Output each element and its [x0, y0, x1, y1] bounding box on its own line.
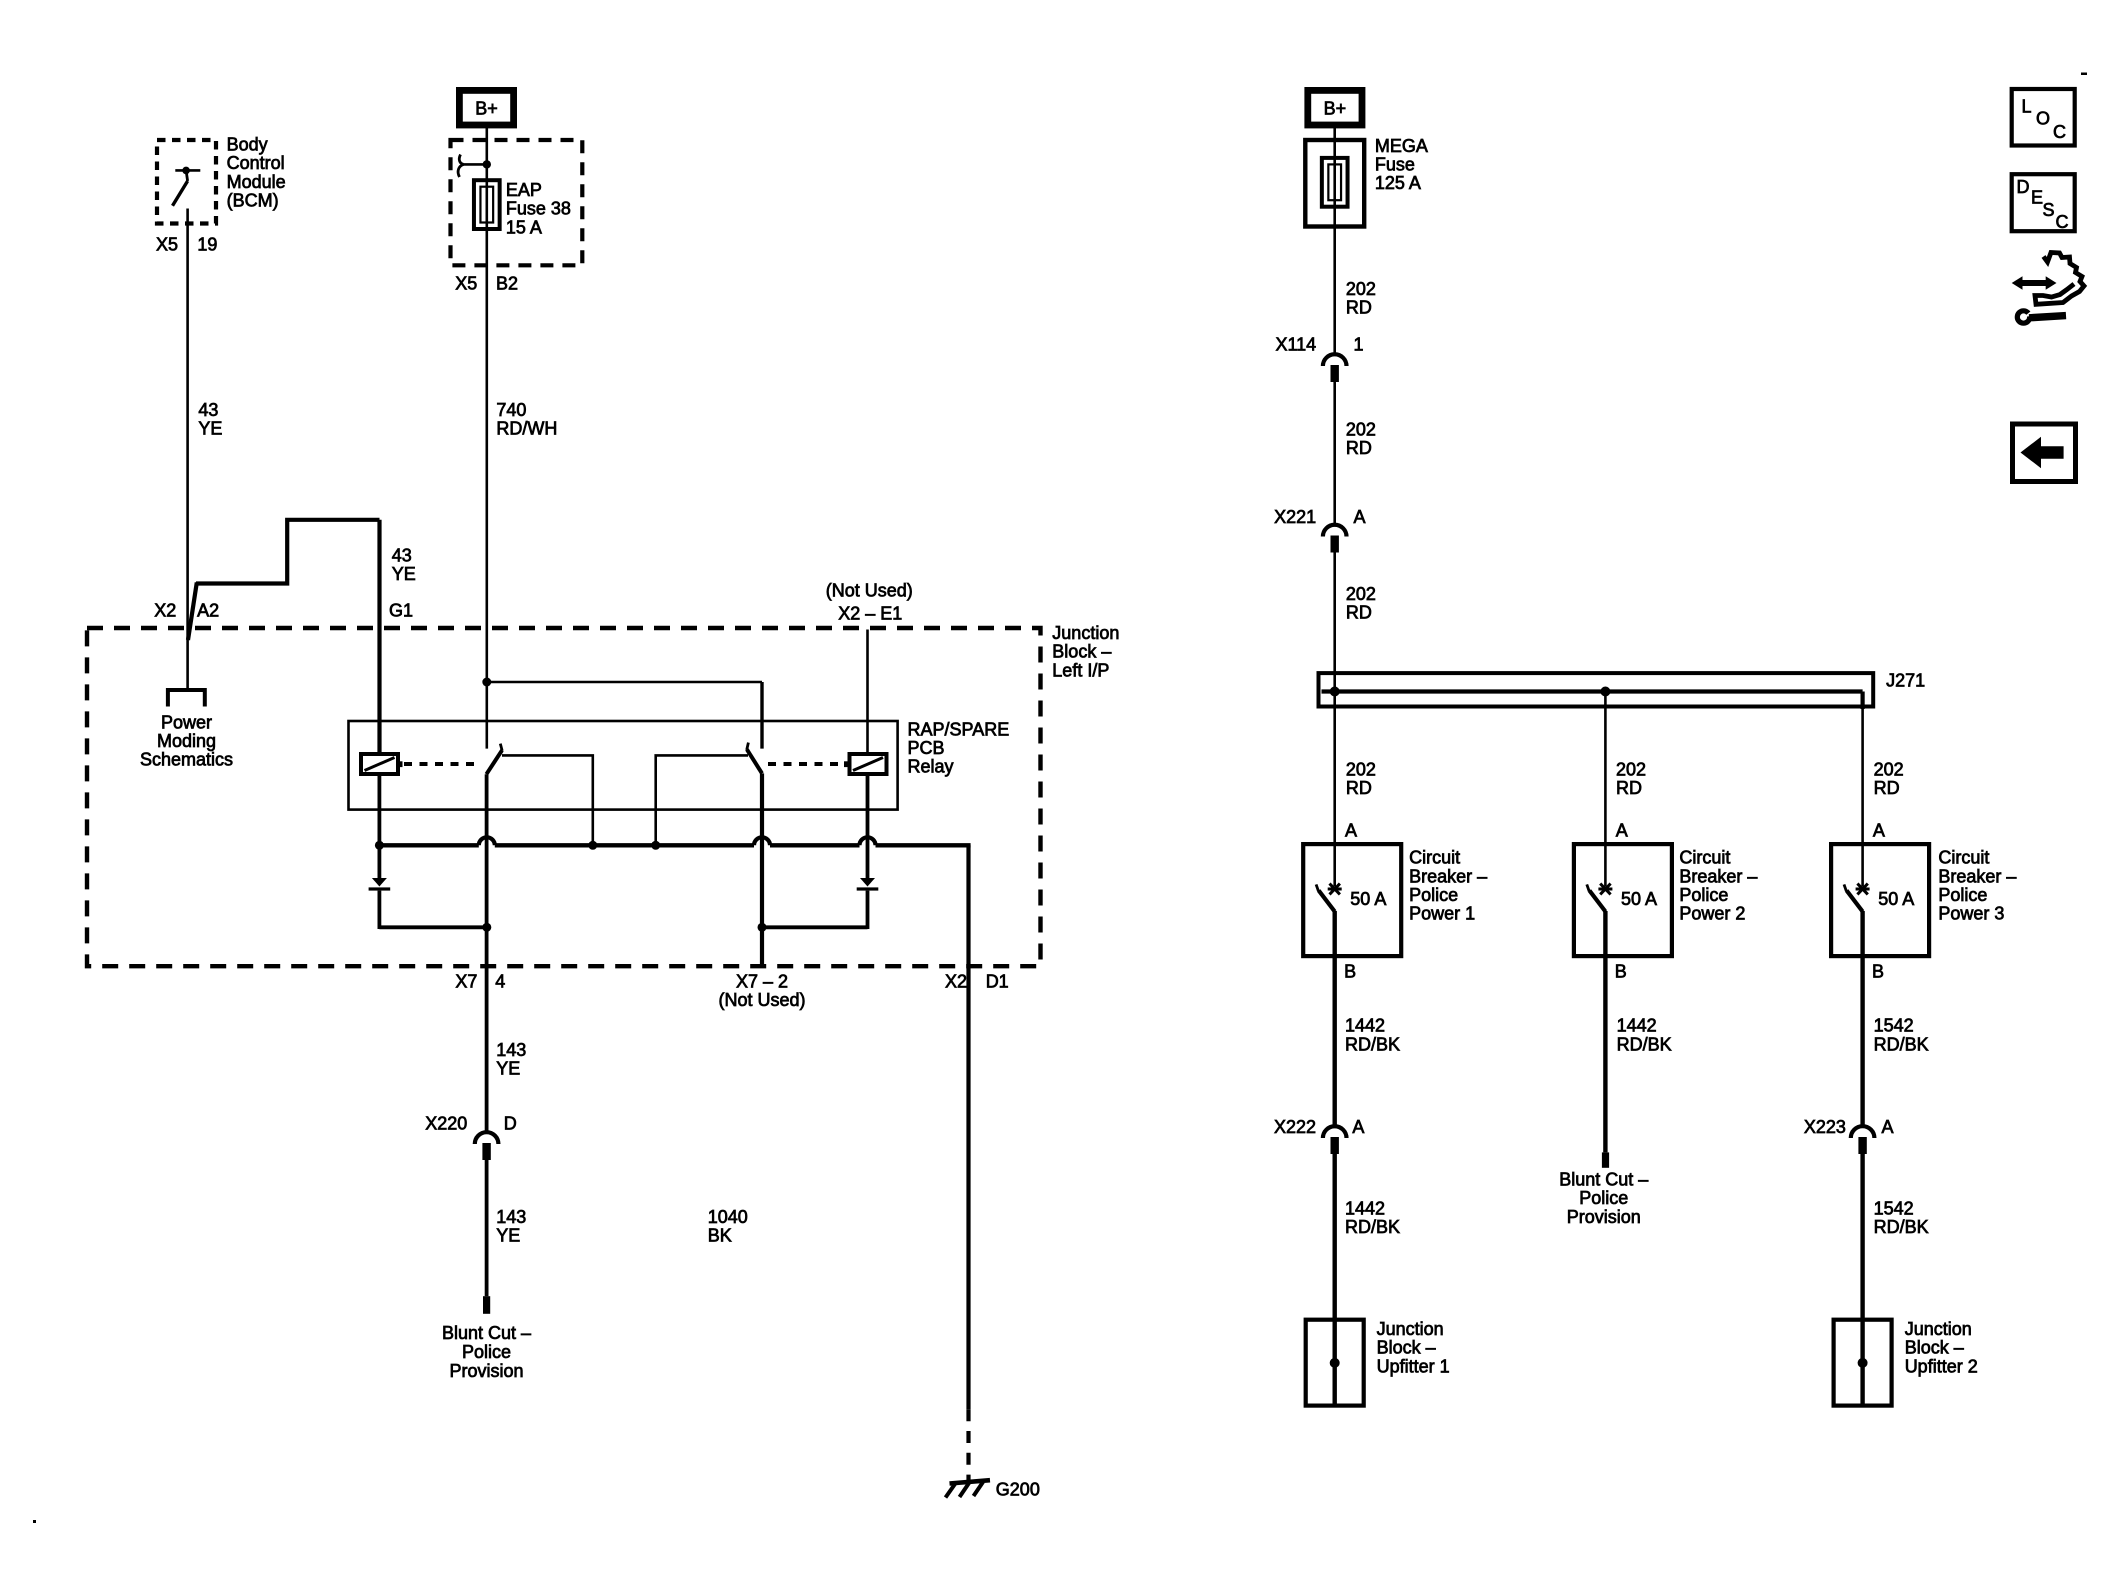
svg-text:Provision: Provision [449, 1361, 523, 1381]
svg-text:RD/BK: RD/BK [1874, 1217, 1929, 1237]
svg-text:RD/BK: RD/BK [1617, 1034, 1672, 1054]
svg-text:D: D [2017, 177, 2030, 197]
svg-text:Police: Police [1938, 885, 1987, 905]
svg-text:A2: A2 [197, 600, 219, 620]
svg-text:X5: X5 [455, 273, 477, 293]
svg-text:202: 202 [1616, 759, 1646, 779]
svg-text:4: 4 [495, 971, 505, 991]
svg-text:Power 1: Power 1 [1409, 904, 1475, 924]
svg-text:MEGA: MEGA [1375, 136, 1428, 156]
svg-text:125 A: 125 A [1375, 173, 1421, 193]
svg-text:X222: X222 [1274, 1117, 1316, 1137]
svg-text:Breaker –: Breaker – [1679, 866, 1757, 886]
svg-text:50 A: 50 A [1878, 889, 1914, 909]
svg-text:X7 – 2: X7 – 2 [736, 971, 788, 991]
svg-text:43: 43 [392, 546, 412, 566]
svg-text:YE: YE [392, 564, 416, 584]
svg-text:RD: RD [1616, 778, 1642, 798]
svg-text:X2: X2 [154, 600, 176, 620]
svg-text:S: S [2043, 200, 2055, 220]
svg-text:(Not Used): (Not Used) [826, 580, 913, 600]
svg-text:1442: 1442 [1345, 1198, 1385, 1218]
svg-text:Circuit: Circuit [1938, 848, 1989, 868]
svg-text:1542: 1542 [1874, 1198, 1914, 1218]
svg-text:PCB: PCB [908, 738, 945, 758]
svg-text:C: C [2056, 212, 2069, 232]
svg-text:Upfitter 1: Upfitter 1 [1377, 1356, 1450, 1376]
svg-text:202: 202 [1346, 420, 1376, 440]
svg-text:1542: 1542 [1874, 1016, 1914, 1036]
svg-text:X2 – E1: X2 – E1 [838, 604, 902, 624]
svg-text:RD: RD [1874, 778, 1900, 798]
svg-text:Police: Police [1679, 885, 1728, 905]
svg-text:L: L [2022, 97, 2032, 117]
svg-text:B+: B+ [1324, 98, 1347, 118]
svg-text:B: B [1872, 962, 1884, 982]
svg-text:Breaker –: Breaker – [1409, 866, 1487, 886]
svg-text:Circuit: Circuit [1679, 848, 1730, 868]
svg-text:Police: Police [1579, 1188, 1628, 1208]
svg-text:50 A: 50 A [1350, 889, 1386, 909]
svg-text:Module: Module [227, 172, 286, 192]
svg-text:Control: Control [227, 153, 285, 173]
svg-text:1: 1 [1354, 335, 1364, 355]
svg-text:Blunt Cut –: Blunt Cut – [442, 1323, 531, 1343]
svg-text:202: 202 [1346, 279, 1376, 299]
svg-text:YE: YE [496, 1226, 520, 1246]
svg-text:Left I/P: Left I/P [1052, 660, 1109, 680]
svg-text:Power 3: Power 3 [1938, 904, 2004, 924]
svg-text:Block –: Block – [1052, 642, 1111, 662]
svg-text:Fuse: Fuse [1375, 155, 1415, 175]
svg-text:G200: G200 [996, 1480, 1040, 1500]
svg-text:RD: RD [1346, 778, 1372, 798]
svg-text:X220: X220 [425, 1114, 467, 1134]
svg-text:1442: 1442 [1345, 1016, 1385, 1036]
svg-text:D1: D1 [986, 971, 1009, 991]
svg-text:Upfitter 2: Upfitter 2 [1905, 1356, 1978, 1376]
svg-text:Circuit: Circuit [1409, 848, 1460, 868]
svg-text:RD: RD [1346, 603, 1372, 623]
svg-text:A: A [1354, 507, 1366, 527]
svg-text:D: D [504, 1114, 517, 1134]
svg-text:RD/BK: RD/BK [1874, 1034, 1929, 1054]
svg-text:202: 202 [1874, 759, 1904, 779]
svg-text:43: 43 [198, 400, 218, 420]
svg-text:G1: G1 [389, 600, 413, 620]
svg-text:O: O [2036, 109, 2050, 129]
svg-text:1040: 1040 [708, 1207, 748, 1227]
svg-text:Relay: Relay [908, 757, 954, 777]
svg-text:YE: YE [198, 419, 222, 439]
svg-text:Junction: Junction [1905, 1319, 1972, 1339]
svg-text:Body: Body [227, 134, 268, 154]
svg-text:Police: Police [462, 1342, 511, 1362]
svg-text:YE: YE [496, 1059, 520, 1079]
svg-text:B2: B2 [496, 273, 518, 293]
svg-text:143: 143 [496, 1207, 526, 1227]
svg-text:E: E [2031, 188, 2043, 208]
svg-text:202: 202 [1346, 759, 1376, 779]
svg-text:Provision: Provision [1567, 1207, 1641, 1227]
svg-text:Moding: Moding [157, 731, 216, 751]
svg-text:RD: RD [1346, 298, 1372, 318]
svg-text:X223: X223 [1804, 1117, 1846, 1137]
svg-text:RD/BK: RD/BK [1345, 1217, 1400, 1237]
svg-text:15 A: 15 A [506, 217, 542, 237]
svg-text:143: 143 [496, 1040, 526, 1060]
svg-text:A: A [1345, 820, 1357, 840]
svg-text:Schematics: Schematics [140, 750, 233, 770]
svg-text:Power 2: Power 2 [1679, 904, 1745, 924]
svg-text:A: A [1616, 820, 1628, 840]
svg-text:X5: X5 [156, 235, 178, 255]
svg-text:Junction: Junction [1377, 1319, 1444, 1339]
svg-text:19: 19 [197, 235, 217, 255]
svg-text:X114: X114 [1275, 335, 1316, 355]
svg-text:Power: Power [161, 712, 212, 732]
svg-text:RD/WH: RD/WH [496, 419, 557, 439]
svg-text:Block –: Block – [1905, 1338, 1964, 1358]
svg-text:740: 740 [496, 400, 526, 420]
svg-text:B: B [1344, 962, 1356, 982]
svg-text:50 A: 50 A [1621, 889, 1657, 909]
svg-text:202: 202 [1346, 584, 1376, 604]
svg-text:RD: RD [1346, 438, 1372, 458]
svg-text:X221: X221 [1274, 507, 1316, 527]
svg-text:X7: X7 [455, 971, 477, 991]
svg-text:A: A [1882, 1117, 1894, 1137]
svg-text:(Not Used): (Not Used) [718, 990, 805, 1010]
svg-text:A: A [1873, 820, 1885, 840]
svg-text:Police: Police [1409, 885, 1458, 905]
svg-text:X2: X2 [945, 971, 967, 991]
svg-text:EAP: EAP [506, 180, 542, 200]
svg-text:Block –: Block – [1377, 1338, 1436, 1358]
svg-text:RD/BK: RD/BK [1345, 1034, 1400, 1054]
svg-text:1442: 1442 [1617, 1016, 1657, 1036]
svg-text:A: A [1352, 1117, 1364, 1137]
svg-text:Junction: Junction [1052, 623, 1119, 643]
svg-text:(BCM): (BCM) [227, 191, 279, 211]
svg-text:RAP/SPARE: RAP/SPARE [908, 719, 1010, 739]
svg-text:C: C [2053, 122, 2066, 142]
svg-text:Fuse 38: Fuse 38 [506, 199, 571, 219]
svg-text:B+: B+ [475, 98, 498, 118]
svg-text:Blunt Cut –: Blunt Cut – [1559, 1169, 1648, 1189]
svg-text:J271: J271 [1886, 671, 1925, 691]
svg-text:B: B [1615, 962, 1627, 982]
svg-text:BK: BK [708, 1226, 732, 1246]
svg-text:Breaker –: Breaker – [1938, 866, 2016, 886]
